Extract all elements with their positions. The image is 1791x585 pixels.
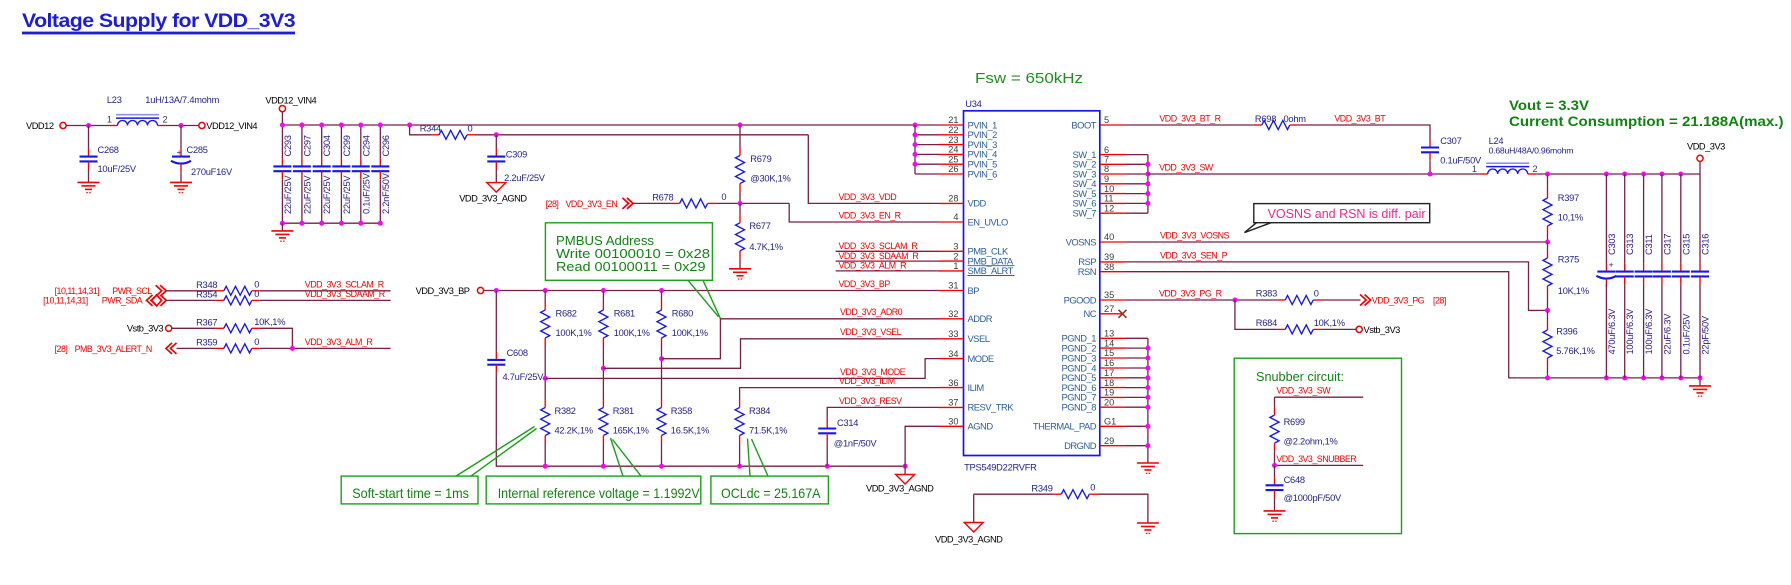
svg-text:0.1uF/25V: 0.1uF/25V bbox=[361, 172, 371, 214]
net label VDD_3V3_SNUBBER bbox=[1276, 454, 1356, 464]
svg-text:100K,1%: 100K,1% bbox=[556, 328, 592, 338]
svg-text:VDD_3V3_AGND: VDD_3V3_AGND bbox=[866, 484, 934, 494]
svg-text:C315: C315 bbox=[1681, 234, 1691, 255]
pin 2 PMB_DATA (U34 left) bbox=[939, 251, 1015, 266]
svg-text:0: 0 bbox=[254, 279, 259, 289]
wire output rail VDD_3V3 bbox=[1536, 173, 1700, 175]
svg-text:R359: R359 bbox=[196, 338, 217, 348]
svg-text:R375: R375 bbox=[1558, 254, 1579, 264]
wire net VDD_3V3_EN_R to pin 4 bbox=[789, 203, 938, 222]
svg-text:C297: C297 bbox=[302, 135, 312, 156]
svg-text:VDD_3V3_ILIM: VDD_3V3_ILIM bbox=[839, 376, 895, 386]
capacitor C313 100uF/6.3V bbox=[1616, 174, 1636, 378]
svg-text:ADDR: ADDR bbox=[968, 313, 993, 324]
junctions PGND bus bbox=[1145, 346, 1150, 449]
svg-text:RESV_TRK: RESV_TRK bbox=[968, 402, 1015, 413]
svg-text:0: 0 bbox=[1314, 288, 1319, 298]
wire net VDD_3V3_PG_R from pin 35 bbox=[1126, 299, 1277, 301]
wire R699 to SNUBBER node bbox=[1274, 451, 1276, 465]
svg-text:VDD_3V3_BP: VDD_3V3_BP bbox=[839, 279, 891, 289]
resistor R382 42.2K,1% bbox=[541, 400, 593, 444]
pin 38 RSN (U34 right) bbox=[1078, 262, 1126, 277]
junction C307/SW bbox=[1428, 172, 1433, 177]
net label VDD_3V3_SEN_P bbox=[1160, 250, 1228, 260]
svg-text:PMB_3V3_ALERT_N: PMB_3V3_ALERT_N bbox=[75, 344, 152, 354]
net label VDD_3V3_RESV bbox=[839, 396, 902, 406]
wire R367 to ALM junction bbox=[260, 328, 293, 348]
wire BP rail to pin 31 bbox=[484, 290, 939, 292]
svg-text:470uF/6.3V: 470uF/6.3V bbox=[1607, 308, 1617, 355]
svg-text:R396: R396 bbox=[1556, 326, 1577, 336]
wire R680 to R358 bbox=[661, 346, 663, 400]
ground (earth) under C285 bbox=[170, 172, 192, 193]
svg-text:14: 14 bbox=[1104, 338, 1114, 348]
capacitor C314 @1nF/50V bbox=[818, 418, 877, 448]
svg-text:R381: R381 bbox=[613, 406, 634, 416]
svg-text:VDD_3V3: VDD_3V3 bbox=[1687, 141, 1725, 151]
svg-text:R367: R367 bbox=[196, 318, 217, 328]
resistor R682 100K,1% bbox=[541, 291, 592, 347]
net label VDD_3V3_MODE bbox=[840, 367, 906, 377]
svg-text:+: + bbox=[1609, 259, 1614, 269]
wire net VDD_3V3_BT to C307 bbox=[1298, 125, 1430, 140]
pin 18 PGND_6 (U34 right) bbox=[1061, 378, 1126, 393]
port Vstb_3V3 (right) bbox=[1321, 325, 1400, 335]
net label VDD_3V3_SCLAM_R bbox=[839, 241, 918, 251]
svg-text:0: 0 bbox=[254, 337, 259, 347]
net label VDD_3V3_ADR0 bbox=[840, 307, 903, 317]
resistor R367 10K,1% bbox=[172, 317, 285, 333]
capacitor C297 22uF/25V bbox=[293, 125, 313, 223]
resistor R383 0 bbox=[1256, 288, 1321, 304]
wire R382 to AGND rail bbox=[544, 444, 546, 467]
svg-text:0: 0 bbox=[468, 124, 473, 134]
capacitor C315 0.1uF/25V bbox=[1672, 174, 1692, 378]
svg-text:ILIM: ILIM bbox=[968, 382, 985, 393]
svg-text:VDD_3V3_SDAAM_R: VDD_3V3_SDAAM_R bbox=[839, 251, 919, 261]
ground (earth) under R677 bbox=[729, 259, 751, 279]
port VDD_3V3 bbox=[1687, 141, 1725, 174]
resistor R381 165K,1% bbox=[599, 400, 649, 444]
svg-text:[28]: [28] bbox=[55, 344, 68, 354]
svg-text:22pF/50V: 22pF/50V bbox=[1701, 315, 1711, 354]
wire R678 to EN bend bbox=[716, 202, 790, 204]
svg-text:22uF/25V: 22uF/25V bbox=[322, 175, 332, 214]
wire net VDD_3V3_BT_R from pin 5 bbox=[1126, 124, 1254, 126]
ground (earth) snubber bbox=[1264, 498, 1286, 521]
svg-text:VDD_3V3_EN_R: VDD_3V3_EN_R bbox=[839, 210, 901, 220]
svg-text:38: 38 bbox=[1104, 262, 1114, 272]
svg-text:13: 13 bbox=[1104, 329, 1114, 339]
capacitor C316 22pF/50V bbox=[1691, 174, 1711, 378]
svg-text:36: 36 bbox=[948, 378, 958, 388]
svg-text:PGND_8: PGND_8 bbox=[1061, 402, 1096, 413]
capacitor C303 470uF/6.3V bbox=[1596, 174, 1617, 378]
annotation Vout / Current Consumption bbox=[1509, 98, 1784, 129]
pin 34 MODE (U34 left) bbox=[939, 349, 994, 364]
wire R384 to AGND rail bbox=[739, 444, 741, 467]
svg-text:R358: R358 bbox=[671, 406, 692, 416]
capacitor C311 100uF/6.3V bbox=[1635, 174, 1655, 378]
svg-text:0.1uF/25V: 0.1uF/25V bbox=[1681, 313, 1691, 355]
svg-text:VDD12_VIN4: VDD12_VIN4 bbox=[265, 95, 316, 105]
svg-text:22uF/25V: 22uF/25V bbox=[342, 175, 352, 214]
capacitor C294 0.1uF/25V bbox=[352, 125, 372, 223]
resistor R396 5.76K,1% bbox=[1543, 310, 1595, 366]
wire net VDD_3V3_SCLAM_R to pin 3 bbox=[836, 250, 939, 252]
resistor R684 10K,1% bbox=[1235, 300, 1345, 334]
svg-text:PGOOD: PGOOD bbox=[1064, 294, 1097, 305]
svg-text:2: 2 bbox=[1533, 164, 1538, 174]
pin 13 PGND_1 (U34 right) bbox=[1061, 329, 1126, 344]
annotation Internal reference voltage = 1.1992V bbox=[486, 438, 701, 504]
pin 9 SW_4 (U34 right) bbox=[1072, 174, 1126, 189]
annotation OCLdc = 25.167A bbox=[711, 439, 829, 504]
pin 25 PVIN_5 (U34 left) bbox=[939, 154, 998, 169]
capacitor C304 22uF/25V bbox=[313, 125, 333, 223]
resistor R679 @30K,1% bbox=[736, 125, 791, 192]
junction SEN_P/R375/R396 bbox=[1545, 308, 1550, 313]
pin 8 SW_3 (U34 right) bbox=[1072, 164, 1126, 179]
wire net VDD_3V3_RESV from pin 37 to C314 bbox=[827, 407, 938, 420]
svg-text:PWR_SCL: PWR_SCL bbox=[112, 286, 152, 296]
svg-text:VDD_3V3_BT_R: VDD_3V3_BT_R bbox=[1159, 113, 1220, 123]
junctions on BP rail bbox=[494, 288, 664, 293]
svg-text:AGND: AGND bbox=[968, 421, 994, 432]
net label VDD_3V3_SDAAM_R bbox=[305, 289, 385, 299]
wire R681 to R381 bbox=[602, 346, 604, 400]
svg-text:0ohm: 0ohm bbox=[1284, 114, 1307, 124]
svg-text:VOSNS: VOSNS bbox=[1066, 236, 1097, 247]
svg-text:100uF/6.3V: 100uF/6.3V bbox=[1644, 308, 1654, 355]
junction PG_R/R684 bbox=[1232, 298, 1237, 303]
svg-text:C299: C299 bbox=[342, 135, 352, 156]
svg-text:10: 10 bbox=[1104, 184, 1114, 194]
wire net VDD_3V3_VOSNS from pin 40 bbox=[1126, 241, 1548, 243]
junctions output rail bbox=[1545, 172, 1683, 177]
svg-text:5.76K,1%: 5.76K,1% bbox=[1556, 346, 1594, 356]
net label VDD_3V3_SDAAM_R bbox=[839, 251, 919, 261]
off-page connector VDD_3V3_EN [28] bbox=[546, 198, 633, 209]
svg-text:BP: BP bbox=[968, 285, 980, 296]
ground (earth) output rail bbox=[1689, 375, 1711, 396]
svg-text:NC: NC bbox=[1083, 308, 1096, 319]
svg-text:MODE: MODE bbox=[968, 353, 994, 364]
svg-text:8: 8 bbox=[1104, 164, 1109, 174]
svg-text:2.2nF/50V: 2.2nF/50V bbox=[381, 172, 391, 214]
svg-text:@1000pF/50V: @1000pF/50V bbox=[1284, 493, 1342, 503]
wire R397 to VOSNS junction bbox=[1547, 234, 1549, 242]
sheet title Voltage Supply for VDD_3V3 bbox=[22, 10, 296, 34]
svg-text:C311: C311 bbox=[1644, 234, 1654, 255]
wire net VDD_3V3_SDAAM_R bbox=[260, 299, 391, 301]
pin 40 VOSNS (U34 right) bbox=[1066, 232, 1126, 247]
svg-text:SW_7: SW_7 bbox=[1072, 208, 1096, 219]
junction VOSNS/R397/R375 bbox=[1545, 240, 1550, 245]
svg-text:165K,1%: 165K,1% bbox=[613, 426, 649, 436]
svg-text:1: 1 bbox=[107, 114, 112, 124]
resistor R678 0 bbox=[652, 192, 726, 208]
wire VIN rail to PVIN pins bbox=[282, 124, 938, 126]
svg-text:R383: R383 bbox=[1256, 289, 1277, 299]
svg-text:Vout = 3.3V: Vout = 3.3V bbox=[1509, 98, 1589, 113]
no-connect X on pin 27 bbox=[1119, 310, 1127, 318]
net label VDD_3V3_SW (snubber) bbox=[1276, 386, 1331, 396]
wire net VDD_3V3_ILIM from pin 36 to R384 bbox=[740, 388, 939, 400]
wire net RSN from pin 38 to output ground rail bbox=[1126, 272, 1700, 378]
wire L23 to VDD12_VIN4 bbox=[166, 125, 199, 127]
port VDD12 bbox=[26, 121, 66, 131]
wire net VDD_3V3_SCLAM_R bbox=[260, 290, 391, 292]
svg-text:VDD_3V3_ADR0: VDD_3V3_ADR0 bbox=[840, 307, 903, 317]
wire net VDD_3V3_ADR0 to pin 32 bbox=[662, 319, 939, 359]
resistor R349 0 bbox=[974, 483, 1098, 499]
wire VDD12 to L23 bbox=[66, 125, 109, 127]
wire net VDD_3V3_SW to L24 bbox=[1148, 173, 1479, 175]
junctions on cap bank bottom rail bbox=[280, 221, 383, 226]
svg-text:L23: L23 bbox=[107, 95, 122, 105]
junction node L23/C285 bbox=[179, 123, 184, 128]
pin 4 EN_UVLO (U34 left) bbox=[939, 212, 1008, 227]
svg-text:OCLdc = 25.167A: OCLdc = 25.167A bbox=[721, 485, 821, 501]
svg-text:[28]: [28] bbox=[546, 199, 559, 209]
svg-text:THERMAL_PAD: THERMAL_PAD bbox=[1033, 421, 1097, 432]
svg-text:10K,1%: 10K,1% bbox=[1314, 318, 1345, 328]
svg-text:R677: R677 bbox=[749, 221, 770, 231]
svg-text:Fsw = 650kHz: Fsw = 650kHz bbox=[975, 71, 1083, 87]
svg-text:39: 39 bbox=[1104, 252, 1114, 262]
svg-text:PWR_SDA: PWR_SDA bbox=[102, 296, 143, 306]
inductor L24 0.68uH/48A/0.96mohm bbox=[1472, 136, 1573, 174]
svg-text:Internal reference voltage = 1: Internal reference voltage = 1.1992V bbox=[498, 485, 701, 501]
pin 15 PGND_3 (U34 right) bbox=[1061, 348, 1126, 363]
svg-text:[10,11,14,31]: [10,11,14,31] bbox=[55, 286, 100, 296]
net label VDD_3V3_ALM_R bbox=[305, 337, 373, 347]
wire VDD12_VIN4 down to rail bbox=[281, 112, 283, 125]
port VDD_3V3_BP bbox=[416, 286, 484, 296]
svg-text:G1: G1 bbox=[1104, 417, 1116, 427]
svg-text:21: 21 bbox=[948, 115, 958, 125]
off-page connector PWR_SCL [10,11,14,31] bbox=[55, 285, 167, 296]
svg-text:4: 4 bbox=[953, 212, 958, 222]
capacitor C299 22uF/25V bbox=[332, 125, 352, 223]
svg-text:VDD_3V3_AGND: VDD_3V3_AGND bbox=[459, 194, 527, 204]
pin 1 SMB_ALRT (U34 left) bbox=[939, 261, 1015, 276]
svg-text:30: 30 bbox=[948, 417, 958, 427]
svg-text:VDD_3V3_SW: VDD_3V3_SW bbox=[1276, 386, 1331, 396]
junctions on AGND rail bbox=[543, 464, 908, 469]
svg-text:SMB_ALRT: SMB_ALRT bbox=[968, 265, 1014, 276]
svg-text:C296: C296 bbox=[381, 135, 391, 156]
resistor R698 0ohm bbox=[1254, 114, 1306, 129]
svg-text:C316: C316 bbox=[1701, 234, 1711, 255]
wire R396 to bottom rail bbox=[1547, 366, 1549, 378]
pin 37 RESV_TRK (U34 left) bbox=[939, 398, 1015, 413]
port VDD12_VIN4 bbox=[199, 121, 258, 131]
capacitor C293 22uF/25V bbox=[273, 125, 293, 223]
pin 6 SW_1 (U34 right) bbox=[1072, 145, 1126, 160]
pin 12 SW_7 (U34 right) bbox=[1072, 203, 1126, 218]
svg-text:VDD_3V3_BP: VDD_3V3_BP bbox=[416, 286, 470, 296]
svg-text:VDD_3V3_EN: VDD_3V3_EN bbox=[566, 199, 618, 209]
svg-text:@2.2ohm,1%: @2.2ohm,1% bbox=[1284, 436, 1338, 446]
pin 33 VSEL (U34 left) bbox=[939, 329, 990, 344]
capacitor C307 0.1uF/50V bbox=[1421, 136, 1482, 166]
pin 29 DRGND (U34 right) bbox=[1064, 436, 1126, 451]
svg-text:4.7uF/25V: 4.7uF/25V bbox=[503, 372, 545, 382]
svg-text:R354: R354 bbox=[196, 290, 217, 300]
svg-text:VDD_3V3_SEN_P: VDD_3V3_SEN_P bbox=[1160, 250, 1228, 260]
svg-text:VDD_3V3_ALM_R: VDD_3V3_ALM_R bbox=[839, 261, 907, 271]
svg-text:2.2uF/25V: 2.2uF/25V bbox=[504, 173, 546, 183]
off-page connector VDD_3V3_PG [28] bbox=[1360, 295, 1446, 306]
pin 7 SW_2 (U34 right) bbox=[1072, 155, 1126, 170]
wire net VDD_3V3_SDAAM_R to pin 2 bbox=[836, 260, 939, 262]
svg-text:3: 3 bbox=[953, 242, 958, 252]
svg-text:0: 0 bbox=[254, 289, 259, 299]
svg-text:34: 34 bbox=[948, 349, 958, 359]
port Vstb_3V3 bbox=[127, 324, 172, 334]
ground VDD_3V3_AGND (triangle) bbox=[866, 466, 934, 494]
wire net VDD_3V3_VDD to pin 28 bbox=[808, 135, 938, 204]
svg-text:VDD_3V3_AGND: VDD_3V3_AGND bbox=[935, 535, 1003, 545]
svg-text:4.7K,1%: 4.7K,1% bbox=[749, 242, 782, 252]
svg-text:100uF/6.3V: 100uF/6.3V bbox=[1625, 308, 1635, 355]
svg-text:VDD_3V3_PG_R: VDD_3V3_PG_R bbox=[1159, 288, 1222, 298]
svg-text:9: 9 bbox=[1104, 174, 1109, 184]
svg-text:R681: R681 bbox=[614, 309, 635, 319]
pin 20 PGND_8 (U34 right) bbox=[1061, 397, 1126, 412]
port VDD12_VIN4 (top of cap bank) bbox=[265, 95, 316, 111]
resistor R397 10,1% bbox=[1543, 174, 1583, 234]
resistor R354 0 bbox=[166, 289, 260, 305]
wire R375 to SEN_P junction bbox=[1547, 294, 1549, 310]
svg-text:Current Consumption = 21.188A(: Current Consumption = 21.188A(max.) bbox=[1509, 114, 1784, 129]
svg-text:16: 16 bbox=[1104, 358, 1114, 368]
pin 16 PGND_4 (U34 right) bbox=[1061, 358, 1126, 373]
junctions SW bus bbox=[1145, 162, 1150, 206]
pin 21 PVIN_1 (U34 left) bbox=[939, 115, 998, 130]
svg-text:6: 6 bbox=[1104, 145, 1109, 155]
svg-text:R349: R349 bbox=[1031, 483, 1052, 493]
svg-text:VDD12_VIN4: VDD12_VIN4 bbox=[206, 121, 257, 131]
resistor R375 10K,1% bbox=[1543, 242, 1589, 296]
svg-text:0: 0 bbox=[721, 192, 726, 202]
off-page connector PWR_SDA [10,11,14,31] bbox=[43, 295, 166, 306]
svg-text:R680: R680 bbox=[672, 309, 693, 319]
annotation Soft-start time = 1ms bbox=[341, 427, 536, 504]
wire R679 to junction bbox=[739, 192, 741, 204]
svg-text:C317: C317 bbox=[1662, 234, 1672, 255]
capacitor C296 2.2nF/50V bbox=[371, 125, 391, 223]
junction R679/R677/EN bbox=[738, 201, 743, 206]
junction C309 tap bbox=[494, 132, 499, 137]
pin 31 BP (U34 left) bbox=[939, 281, 980, 296]
resistor R681 100K,1% bbox=[599, 291, 650, 347]
svg-text:270uF16V: 270uF16V bbox=[191, 167, 233, 177]
net label VDD_3V3_EN_R bbox=[839, 210, 901, 220]
svg-text:16.5K,1%: 16.5K,1% bbox=[671, 426, 709, 436]
svg-text:RSN: RSN bbox=[1078, 266, 1096, 277]
svg-text:Vstb_3V3: Vstb_3V3 bbox=[1364, 325, 1401, 335]
svg-text:10K,1%: 10K,1% bbox=[1558, 286, 1589, 296]
pin 27 NC (U34 right) bbox=[1083, 304, 1121, 319]
net label VDD_3V3_SCLAM_R bbox=[305, 279, 384, 289]
svg-text:VDD_3V3_VOSNS: VDD_3V3_VOSNS bbox=[1160, 230, 1230, 240]
svg-text:22: 22 bbox=[948, 125, 958, 135]
svg-text:22uF/25V: 22uF/25V bbox=[283, 175, 293, 214]
svg-text:R698: R698 bbox=[1255, 114, 1276, 124]
svg-text:TPS549D22RVFR: TPS549D22RVFR bbox=[964, 463, 1037, 473]
wire net VDD_3V3_MODE to pin 34 bbox=[545, 359, 938, 379]
svg-text:C314: C314 bbox=[837, 418, 858, 428]
net label VDD_3V3_SW bbox=[1159, 162, 1214, 172]
resistor R344 0 bbox=[410, 124, 475, 140]
wire R349 to earth bbox=[1097, 494, 1148, 523]
svg-text:Vstb_3V3: Vstb_3V3 bbox=[127, 324, 164, 334]
pin 14 PGND_2 (U34 right) bbox=[1061, 338, 1126, 353]
svg-text:22uF/25V: 22uF/25V bbox=[302, 175, 312, 214]
svg-text:2: 2 bbox=[953, 251, 958, 261]
svg-text:32: 32 bbox=[948, 309, 958, 319]
svg-text:C307: C307 bbox=[1440, 136, 1461, 146]
svg-text:VSEL: VSEL bbox=[968, 333, 990, 344]
ground VDD_3V3_AGND (triangle) under C309 bbox=[459, 169, 527, 203]
net label VDD_3V3_PG_R bbox=[1159, 288, 1222, 298]
pin 11 SW_6 (U34 right) bbox=[1072, 194, 1126, 209]
svg-text:VDD_3V3_BT: VDD_3V3_BT bbox=[1334, 113, 1386, 123]
svg-text:C608: C608 bbox=[507, 348, 528, 358]
svg-text:0.68uH/48A/0.96mohm: 0.68uH/48A/0.96mohm bbox=[1489, 145, 1574, 155]
wire cap bank bottom rail bbox=[282, 222, 380, 224]
svg-text:PVIN_6: PVIN_6 bbox=[968, 168, 998, 179]
svg-text:VDD_3V3_SCLAM_R: VDD_3V3_SCLAM_R bbox=[305, 279, 384, 289]
svg-text:C303: C303 bbox=[1607, 234, 1617, 255]
wire snubber node bbox=[1272, 463, 1363, 468]
annotation Fsw = 650kHz bbox=[975, 71, 1083, 87]
net label VDD_3V3_BT_R bbox=[1159, 113, 1220, 123]
svg-text:7: 7 bbox=[1104, 155, 1109, 165]
svg-text:5: 5 bbox=[1104, 115, 1109, 125]
svg-text:C294: C294 bbox=[361, 135, 371, 156]
wire R383 to off-page bbox=[1321, 299, 1360, 301]
svg-text:18: 18 bbox=[1104, 378, 1114, 388]
svg-text:40: 40 bbox=[1104, 232, 1114, 242]
svg-text:C309: C309 bbox=[506, 150, 527, 160]
svg-text:[10,11,14,31]: [10,11,14,31] bbox=[43, 296, 88, 306]
svg-text:+: + bbox=[177, 147, 182, 157]
capacitor C317 22uF/6.3V bbox=[1653, 174, 1673, 378]
op-amp/regulator IC U34 TPS549D22RVFR body bbox=[964, 99, 1100, 472]
wire R682 to R382 bbox=[544, 346, 546, 400]
resistor R358 16.5K,1% bbox=[657, 400, 709, 444]
svg-text:C313: C313 bbox=[1625, 234, 1635, 255]
net label VDD_3V3_VOSNS bbox=[1160, 230, 1230, 240]
svg-text:12: 12 bbox=[1104, 203, 1114, 213]
wire C608 down to AGND rail bbox=[496, 373, 905, 467]
svg-text:VDD_3V3_SNUBBER: VDD_3V3_SNUBBER bbox=[1276, 454, 1356, 464]
pin 19 PGND_7 (U34 right) bbox=[1061, 388, 1126, 403]
svg-text:VDD12: VDD12 bbox=[26, 121, 54, 131]
pin 39 RSP (U34 right) bbox=[1078, 252, 1126, 267]
ground (earth) under cap bank bbox=[271, 223, 293, 241]
svg-text:VDD_3V3_ALM_R: VDD_3V3_ALM_R bbox=[305, 337, 373, 347]
svg-text:33: 33 bbox=[948, 329, 958, 339]
wire C307 to SW node bbox=[1429, 160, 1431, 174]
svg-text:@30K,1%: @30K,1% bbox=[750, 173, 790, 183]
svg-text:R344: R344 bbox=[420, 124, 441, 134]
wire R358 to AGND rail bbox=[661, 444, 663, 467]
